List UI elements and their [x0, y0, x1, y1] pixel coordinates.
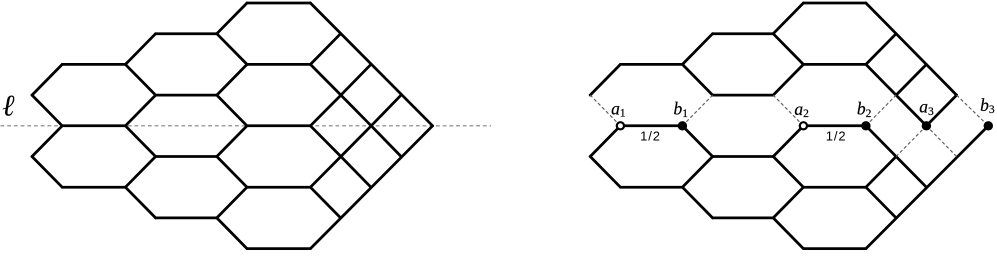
- svg-text:ℓ: ℓ: [2, 90, 15, 123]
- svg-text:1/2: 1/2: [640, 129, 661, 144]
- svg-text:1/2: 1/2: [826, 129, 847, 144]
